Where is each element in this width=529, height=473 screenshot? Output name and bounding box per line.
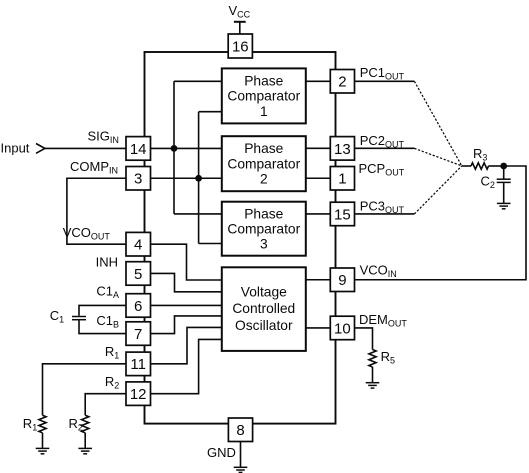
op block: Phase Comparator 1 (U1a) [222, 68, 306, 123]
svg-text:15: 15 [334, 206, 351, 223]
pin 12 [126, 382, 151, 406]
resistor R2 [82, 415, 89, 433]
svg-text:Oscillator: Oscillator [235, 318, 293, 333]
svg-text:R5: R5 [381, 349, 395, 366]
IC package outline [145, 52, 336, 424]
svg-text:SIGIN: SIGIN [88, 129, 119, 146]
wire resistor R1 to ground [42, 433, 44, 449]
pin 4 [126, 232, 151, 256]
wire pin 15 stub [355, 213, 415, 215]
resistor R5 [369, 350, 376, 368]
wire Phase Comparator 2 to pin 1 [306, 177, 331, 179]
svg-text:Phase: Phase [244, 73, 283, 88]
wire pin 12 to resistor R2 [85, 394, 126, 416]
wire pin 7 to VCO input 4 [151, 316, 222, 334]
pin 8 [228, 418, 252, 442]
svg-text:R1: R1 [105, 344, 119, 361]
pin 3 [126, 167, 151, 191]
svg-text:Phase: Phase [244, 206, 283, 221]
pin 5 [126, 262, 151, 286]
svg-text:Comparator: Comparator [227, 156, 300, 171]
wire Phase Comparator 2 to pin 13 [306, 147, 331, 149]
resistor R1 [39, 415, 46, 433]
svg-text:2: 2 [260, 172, 268, 187]
wire VCO to pin 10 [306, 327, 331, 329]
ground below R2 [78, 448, 92, 453]
ground below C2 [497, 203, 511, 208]
svg-text:PC3OUT: PC3OUT [360, 199, 405, 216]
svg-text:PC1OUT: PC1OUT [360, 65, 405, 82]
wire pin 10 to resistor R5 [355, 328, 373, 350]
svg-text:3: 3 [134, 171, 142, 188]
wire pin 2 stub [355, 80, 415, 82]
wire pin 5 to VCO input 2 [151, 273, 222, 291]
wire pin 6 to capacitor C1 top [79, 305, 126, 315]
svg-text:C1: C1 [50, 308, 64, 325]
Vcc supply symbol [234, 22, 246, 34]
wire pin 14 to Phase Comparator 2 input 1 [151, 147, 223, 149]
svg-text:Voltage: Voltage [241, 285, 287, 300]
wire capacitor C1 bottom to pin 7 [79, 320, 126, 333]
wire COMP branch to Phase Comparator 3 input 2 [199, 243, 222, 245]
resistor R3 [471, 163, 489, 169]
svg-text:C1B: C1B [96, 313, 119, 330]
svg-text:PCPOUT: PCPOUT [359, 161, 405, 178]
svg-text:Phase: Phase [244, 141, 283, 156]
pin 7 [126, 322, 151, 346]
svg-text:R2: R2 [105, 374, 119, 391]
wire COMP branch to Phase Comparator 1 input 2 [199, 111, 222, 113]
svg-text:VCOOUT: VCOOUT [63, 225, 111, 242]
svg-text:C2: C2 [481, 174, 495, 191]
wire feedback loop pin 3 to pin 4 [67, 178, 126, 244]
svg-text:INH: INH [96, 255, 118, 270]
pin 9 [330, 268, 354, 292]
svg-text:12: 12 [130, 386, 147, 403]
input arrow chevron [36, 144, 45, 154]
svg-text:C1A: C1A [96, 284, 119, 301]
wire summing node to resistor R3 [462, 165, 471, 167]
svg-text:COMPIN: COMPIN [70, 159, 118, 176]
svg-text:Comparator: Comparator [227, 222, 300, 237]
svg-text:Comparator: Comparator [227, 89, 300, 104]
dashed line pin 13 to summing node [414, 148, 461, 166]
wire SIG branch to Phase Comparator 3 input 1 [174, 213, 222, 215]
svg-text:Controlled: Controlled [232, 301, 295, 316]
wire pin 12 to VCO input 6 [151, 339, 222, 393]
pin 13 [330, 137, 354, 161]
wire Phase Comparator 1 to pin 2 [306, 80, 331, 82]
svg-text:6: 6 [134, 298, 142, 315]
svg-text:9: 9 [338, 272, 346, 289]
wire VCO to pin 9 [306, 279, 331, 281]
op block: Phase Comparator 2 (U1b) [222, 136, 306, 191]
svg-text:3: 3 [260, 237, 268, 252]
op block: Phase Comparator 3 (U1c) [222, 202, 306, 256]
dashed line pin 15 to summing node [414, 166, 461, 214]
wire resistor R2 to ground [84, 433, 86, 449]
op block: Voltage Controlled Oscillator (U1d) [222, 267, 306, 351]
wire pin 6 to VCO input 3 [151, 304, 222, 306]
svg-text:7: 7 [134, 326, 142, 343]
svg-text:GND: GND [207, 445, 236, 460]
svg-text:8: 8 [236, 422, 244, 439]
svg-text:R3: R3 [473, 146, 487, 163]
svg-text:PC2OUT: PC2OUT [360, 133, 405, 150]
svg-text:5: 5 [134, 266, 142, 283]
svg-text:DEMOUT: DEMOUT [359, 312, 407, 329]
svg-text:1: 1 [260, 104, 268, 119]
wire R3 to junction [489, 165, 504, 167]
pin 10 [330, 316, 354, 340]
pin 6 [126, 294, 151, 318]
svg-text:16: 16 [232, 38, 249, 55]
wire Phase Comparator 3 to pin 15 [306, 213, 331, 215]
ground below R5 [366, 383, 380, 388]
svg-text:2: 2 [338, 74, 346, 91]
dashed line pin 2 to summing node [414, 81, 461, 166]
wire SIG branch to Phase Comparator 1 input 1 [174, 80, 222, 82]
pin 11 [126, 352, 151, 376]
wire pin 8 to ground [240, 442, 242, 468]
svg-text:1: 1 [338, 171, 346, 188]
pin 16 [228, 34, 252, 58]
wire resistor R5 to ground [372, 367, 374, 383]
pin 14 [126, 137, 151, 161]
capacitor C2 [497, 179, 511, 182]
wire COMP branch vertical [198, 112, 200, 244]
ground below R1 [36, 448, 50, 453]
junction dot on SIG wire [171, 145, 178, 152]
pin 2 [330, 70, 354, 94]
svg-text:VCC: VCC [229, 3, 251, 20]
svg-text:R1: R1 [23, 416, 37, 433]
svg-text:4: 4 [134, 237, 142, 254]
wire pin 4 to VCO input 1 [151, 244, 222, 280]
svg-text:13: 13 [334, 141, 351, 158]
svg-text:VCOIN: VCOIN [360, 263, 397, 280]
pin 15 [330, 202, 354, 226]
junction dot at R3 / C2 node [500, 163, 507, 170]
svg-text:Input: Input [1, 141, 30, 156]
wire pin 11 to resistor R1 [43, 364, 127, 415]
ground below pin 8 (GND) [234, 467, 248, 472]
wire pin 3 to Phase Comparator 2 input 2 [151, 177, 223, 179]
wire pin 13 stub [355, 147, 415, 149]
wire SIG branch vertical [173, 81, 175, 214]
wire junction to VCO_IN pin 9 [355, 166, 527, 280]
svg-text:R2: R2 [69, 416, 83, 433]
wire capacitor C2 to ground [503, 183, 505, 203]
wire junction to capacitor C2 [503, 166, 505, 179]
wire pin 11 to VCO input 5 [151, 327, 222, 363]
svg-text:11: 11 [130, 356, 146, 373]
capacitor C1 [72, 317, 86, 320]
svg-text:10: 10 [334, 320, 351, 337]
wire Input to pin 14 [45, 147, 126, 149]
pin 1 [330, 167, 354, 191]
svg-text:14: 14 [130, 141, 147, 158]
junction dot on COMP wire [195, 175, 202, 182]
